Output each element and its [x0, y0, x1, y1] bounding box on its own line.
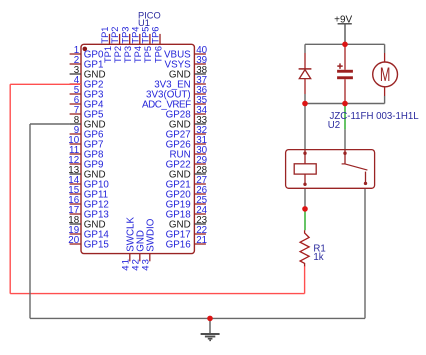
wire GP2 net: vertical up to R1 bottom	[304, 266, 306, 294]
junction coil-R1 node	[302, 206, 308, 212]
wire +9V top rail	[305, 43, 385, 45]
wire motor branch bottom	[384, 96, 386, 104]
wire motor branch top	[384, 44, 386, 53]
pin 33 (GND) right	[169, 115, 208, 131]
pin 9 (GP6) left	[70, 125, 104, 141]
svg-text:JZC-11FH 003-1H1L: JZC-11FH 003-1H1L	[330, 111, 420, 122]
pin TP6 top	[151, 27, 164, 63]
pin 25 (GP19) right	[166, 195, 208, 211]
svg-text:GP15: GP15	[84, 240, 110, 251]
pin 10 (GP7) left	[68, 135, 103, 151]
pin 18 (GND) left	[68, 215, 105, 231]
svg-text:43: 43	[140, 258, 151, 271]
junction +9V rail	[342, 42, 348, 48]
svg-text:TP2: TP2	[113, 46, 123, 63]
svg-text:M: M	[380, 65, 391, 86]
pin 24 (GP18) right	[166, 205, 208, 221]
pin 34 (GP28) right	[166, 105, 208, 121]
junction lower rail / diode	[302, 101, 308, 107]
pin 15 (GP11) left	[68, 185, 108, 201]
pin 42 (GND) bottom	[130, 230, 146, 271]
wire R1 top (green highlighted)	[304, 211, 306, 230]
svg-text:TP4: TP4	[133, 46, 143, 63]
pin 23 (GND) right	[169, 215, 208, 231]
relay U2 coil	[294, 150, 316, 186]
wire GND net: vertical to relay NO contact	[364, 188, 366, 318]
svg-text:TP3: TP3	[123, 46, 133, 63]
diode D1 flyback	[299, 53, 312, 94]
svg-text:TP1: TP1	[100, 27, 110, 44]
pin 29 (GP22) right	[166, 155, 207, 171]
pin 30 (RUN) right	[169, 145, 207, 161]
pin 31 (GP26) right	[166, 135, 207, 151]
pin TP5 top	[141, 27, 154, 63]
pin 37 (3V3_EN) right	[154, 75, 207, 91]
pin 28 (GND) right	[169, 165, 208, 181]
pin 7 (GP5) left	[70, 105, 104, 121]
motor M1	[373, 53, 398, 96]
svg-text:GP16: GP16	[166, 240, 192, 251]
svg-text:TP4: TP4	[130, 27, 140, 44]
wire lower rail	[305, 103, 385, 105]
svg-text:PICO: PICO	[138, 10, 161, 20]
pin 26 (GP20) right	[166, 185, 208, 201]
capacitor C1 polarized	[337, 46, 353, 102]
pin 4 (GP2) left	[70, 75, 104, 91]
pin TP4 top	[130, 27, 143, 63]
pin 38 (GND) right	[169, 65, 208, 81]
svg-text:TP1: TP1	[103, 46, 113, 63]
relay U2 switch	[342, 150, 368, 185]
Pico module U1 body	[81, 44, 194, 253]
pin TP2 top	[110, 27, 123, 63]
pin 35 (ADC_VREF) right	[142, 95, 208, 111]
pin 11 (GP8) left	[69, 145, 104, 161]
pin 5 (GP3) left	[70, 85, 104, 101]
wire relay switch common feed (green highlighted)	[344, 106, 346, 130]
ground symbol	[201, 318, 220, 340]
pin 19 (GP14) left	[68, 225, 109, 241]
pin 27 (GP21) right	[166, 175, 207, 191]
pin 20 (GP15) left	[68, 235, 109, 251]
pin 43 (SWDIO) bottom	[140, 218, 156, 271]
svg-text:TP6: TP6	[151, 27, 161, 44]
svg-text:TP6: TP6	[153, 46, 163, 63]
pin 1 marker dot	[83, 47, 88, 52]
pin 13 (GND) left	[68, 165, 105, 181]
wire GND net: left vertical	[29, 124, 31, 318]
pin 8 (GND) left	[70, 115, 106, 131]
pin TP1 top	[100, 27, 113, 63]
svg-text:SWDIO: SWDIO	[145, 218, 156, 252]
pin 21 (GP16) right	[166, 235, 207, 251]
pin 12 (GP9) left	[68, 155, 103, 171]
junction ground rail	[207, 316, 213, 322]
wire GP2 net: pin4 to left edge	[10, 83, 81, 85]
resistor R1	[300, 230, 309, 266]
svg-text:U2: U2	[328, 120, 340, 131]
pin 2 (GP1) left	[70, 55, 104, 71]
pin 3 (GND) left	[70, 65, 106, 81]
pin 22 (GP17) right	[166, 225, 207, 241]
pin 17 (GP13) left	[68, 205, 109, 221]
wire diode branch bottom	[304, 94, 306, 104]
svg-text:TP3: TP3	[120, 27, 130, 44]
pin 36 (3V3(OUT)) right	[146, 85, 208, 101]
junction lower rail / cap	[342, 101, 348, 107]
svg-text:TP2: TP2	[110, 27, 120, 44]
pin 6 (GP4) left	[70, 95, 104, 111]
wire relay coil top feed	[304, 104, 306, 150]
pin 14 (GP10) left	[68, 175, 109, 191]
svg-text:TP5: TP5	[141, 27, 151, 44]
power symbol +9V	[334, 14, 352, 44]
wire GND net: pin8 to left	[30, 123, 70, 125]
svg-text:20: 20	[68, 235, 79, 246]
pin 39 (VSYS) right	[165, 55, 208, 71]
relay U2 body	[286, 150, 375, 189]
pin 40 (VBUS) right	[164, 45, 208, 61]
wire GND net: bottom rail	[30, 317, 365, 319]
wire GP2 net: bottom horizontal to R1	[10, 293, 304, 295]
pin 1 (GP0) left	[70, 45, 104, 61]
wire diode branch top	[304, 44, 306, 53]
pin 32 (GP27) right	[166, 125, 207, 141]
wire relay coil bottom	[304, 188, 306, 209]
svg-text:21: 21	[196, 235, 207, 246]
wire GP2 net: left vertical	[9, 84, 11, 293]
svg-text:TP5: TP5	[143, 46, 153, 63]
pin TP3 top	[120, 27, 133, 63]
pin 41 (SWCLK) bottom	[120, 216, 136, 270]
wire relay switch common feed gray part	[344, 129, 346, 149]
pin 16 (GP12) left	[68, 195, 109, 211]
svg-text:1k: 1k	[313, 252, 323, 263]
